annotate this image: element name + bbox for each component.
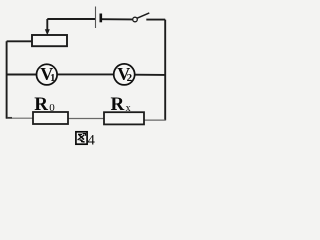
wire middle left segment bbox=[7, 74, 37, 76]
wire slider shaft bbox=[46, 19, 48, 30]
resistor Rx rectangle bbox=[104, 112, 144, 124]
wire bottom rail left thin segment bbox=[7, 117, 34, 119]
wire middle right segment bbox=[135, 74, 166, 76]
wire bottom rail right thin segment bbox=[144, 119, 166, 121]
rheostat slider arrowhead bbox=[45, 29, 50, 35]
wire switch to top-right corner bbox=[146, 19, 165, 21]
wire left vertical bbox=[6, 41, 8, 118]
wire right vertical bbox=[164, 20, 166, 121]
wire battery to switch bbox=[102, 18, 133, 20]
svg-text:4: 4 bbox=[88, 133, 96, 149]
svg-text:2: 2 bbox=[127, 72, 133, 84]
wire bottom rail thin segment between R0 and Rx bbox=[68, 118, 104, 120]
resistor R0 rectangle bbox=[33, 112, 68, 124]
svg-text:0: 0 bbox=[49, 102, 55, 114]
wire rheostat left terminal bbox=[7, 40, 32, 42]
voltmeter V1 circle bbox=[37, 64, 58, 85]
wire middle between voltmeters bbox=[57, 73, 114, 75]
battery short plate bbox=[100, 14, 103, 23]
switch blade bbox=[137, 13, 149, 18]
wire top rail left segment (slider corner to battery) bbox=[47, 18, 95, 20]
caption glyph 图 drawn as paths bbox=[76, 132, 87, 144]
svg-text:R: R bbox=[111, 94, 125, 115]
svg-text:x: x bbox=[126, 103, 131, 114]
svg-text:R: R bbox=[34, 94, 48, 115]
rheostat R rectangle bbox=[32, 35, 67, 46]
svg-text:1: 1 bbox=[50, 73, 55, 84]
switch S pivot circle bbox=[133, 17, 138, 22]
paper background bbox=[0, 0, 185, 152]
wire bottom-left corner stub bbox=[7, 117, 12, 119]
battery long plate bbox=[95, 7, 97, 29]
voltmeter V2 circle bbox=[114, 64, 135, 85]
